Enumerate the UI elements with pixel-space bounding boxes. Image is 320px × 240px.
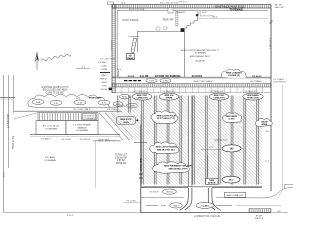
stepped roof line [185, 21, 198, 28]
svg-text:EDGE: EDGE [101, 89, 108, 91]
svg-text:GARAGE: GARAGE [77, 126, 87, 129]
planting bed cloud row [28, 94, 110, 107]
parking box label left [117, 117, 136, 125]
inner line notch [168, 8, 173, 13]
riser dark tick [196, 14, 199, 16]
svg-text:EX LAWN: EX LAWN [45, 156, 55, 159]
svg-text:50 FT WIDE: 50 FT WIDE [11, 136, 14, 150]
driveway left curb outer [180, 188, 189, 210]
svg-text:EX EDGE: EX EDGE [149, 192, 159, 194]
svg-text:EX ROOF LINE: EX ROOF LINE [129, 9, 145, 11]
parking cloud label 2 [222, 113, 241, 123]
svg-text:RAMP: RAMP [127, 57, 134, 60]
entrance drive edge b [105, 113, 129, 141]
svg-text:RESTRIPE: RESTRIPE [226, 116, 237, 118]
under-wall oval 1 [146, 78, 157, 82]
south wall tick [118, 71, 120, 78]
svg-text:35,000 SF: 35,000 SF [195, 60, 205, 62]
svg-text:CURB: CURB [101, 69, 108, 71]
svg-text:EX FENCE: EX FENCE [80, 139, 91, 141]
ramp label box [127, 54, 135, 60]
dimension tick [76, 68, 90, 70]
south wall second line [117, 78, 271, 80]
leader tick dark [100, 72, 110, 74]
svg-text:CURB (TYP): CURB (TYP) [137, 97, 148, 99]
entrance drive edge a [99, 113, 123, 141]
svg-text:N 8 W 98.0: N 8 W 98.0 [110, 40, 112, 51]
interior partition top line [137, 31, 185, 33]
svg-text:NEW LOADING: NEW LOADING [226, 71, 242, 74]
svg-text:TO REMAIN: TO REMAIN [76, 129, 89, 132]
svg-text:NEW CONC WALK: NEW CONC WALK [194, 80, 213, 83]
svg-text:R30.0: R30.0 [173, 205, 179, 207]
svg-text:TO REMAIN: TO REMAIN [45, 127, 58, 130]
svg-text:2.87 AC: 2.87 AC [117, 159, 126, 162]
under-wall dark dashes [124, 80, 141, 82]
svg-text:R25.0: R25.0 [167, 192, 173, 194]
svg-text:EXIST OFFICE: EXIST OFFICE [123, 20, 139, 22]
building east boundary line [270, 8, 272, 191]
interior partition vertical [184, 32, 186, 78]
parking area left edge [140, 114, 142, 125]
svg-text:STOPS (TYP): STOPS (TYP) [247, 97, 259, 99]
svg-text:EX SIGN: EX SIGN [155, 76, 165, 78]
svg-text:CURB (TYP): CURB (TYP) [214, 97, 225, 99]
svg-text:3 AB: 3 AB [36, 101, 41, 104]
svg-text:DOOR: DOOR [128, 76, 135, 78]
svg-text:EX PAVE 40.3: EX PAVE 40.3 [163, 90, 177, 93]
road corner upper jog [285, 184, 294, 188]
svg-text:PROPOSED: PROPOSED [89, 98, 102, 100]
svg-text:EX CONC BLOCK: EX CONC BLOCK [160, 2, 179, 4]
svg-text:LINK FENCE: LINK FENCE [274, 82, 287, 84]
svg-text:62.0': 62.0' [209, 147, 214, 149]
stall row oval r3 [209, 93, 229, 100]
parking hatch area main [141, 96, 262, 185]
building west wall [112, 5, 115, 93]
lower boundary line [95, 141, 97, 189]
svg-text:S 8 E 188.1': S 8 E 188.1' [269, 38, 271, 50]
drive lane line west [187, 96, 189, 187]
svg-text:AREA: AREA [262, 123, 268, 126]
svg-text:NEW FENCE: NEW FENCE [139, 158, 141, 172]
svg-text:EX CURB 40.1: EX CURB 40.1 [133, 91, 147, 93]
striped band label box [83, 113, 96, 119]
road label box right [225, 192, 246, 197]
entrance sidewalk line [14, 110, 122, 112]
svg-text:TOTAL LOT: TOTAL LOT [115, 154, 128, 157]
lawn edge line [96, 140, 117, 142]
wall corner dark mark [109, 88, 112, 91]
svg-text:APRON: APRON [208, 182, 216, 185]
drive lane line east [191, 96, 193, 187]
parking cloud label 1 [151, 111, 178, 124]
svg-text:GARDEN ST: GARDEN ST [6, 114, 9, 128]
svg-text:EX 1 STY BLDG: EX 1 STY BLDG [43, 126, 59, 128]
driveway right curb inner [208, 188, 215, 210]
road oval label left [163, 189, 177, 194]
svg-text:ZONE RA: ZONE RA [116, 162, 127, 165]
svg-text:6 TO: 6 TO [102, 103, 107, 105]
svg-text:STRIPE: STRIPE [166, 97, 174, 99]
svg-text:NO PARKING: NO PARKING [165, 75, 180, 78]
driveway left curb inner [185, 188, 192, 210]
svg-text:RIM 39.8: RIM 39.8 [255, 218, 264, 220]
svg-text:CL 40.0: CL 40.0 [201, 205, 210, 208]
svg-text:N 8 E: N 8 E [2, 172, 4, 178]
svg-text:3 CS: 3 CS [149, 81, 154, 83]
dim tick small [134, 142, 147, 144]
svg-text:NEW PAVEMENT SECTION: NEW PAVEMENT SECTION [164, 165, 192, 168]
stall row oval r1 [132, 93, 152, 100]
planting bed bottom edge [29, 106, 123, 108]
aisle line [112, 92, 271, 94]
svg-text:EX CHAIN: EX CHAIN [274, 78, 284, 81]
shop box left [36, 121, 66, 135]
building north wall hatched band [112, 5, 271, 8]
north arrow [36, 52, 38, 70]
svg-text:EX RTU (TYP): EX RTU (TYP) [200, 16, 214, 18]
sidewalk hatch band [112, 84, 271, 87]
svg-text:O.H. DR: O.H. DR [140, 76, 149, 78]
top stall ticks row [118, 87, 268, 92]
entrance drive edge c [111, 113, 133, 139]
svg-text:GATE: GATE [101, 81, 107, 84]
svg-text:EX WALK: EX WALK [41, 138, 51, 141]
svg-text:24.0': 24.0' [229, 179, 234, 182]
svg-text:EX CURB: EX CURB [107, 109, 117, 111]
svg-text:EX WALL: EX WALL [98, 61, 108, 64]
svg-text:DOORS (3): DOORS (3) [228, 75, 240, 77]
entrance drive diagonal hatch [105, 113, 141, 141]
partition corner dark square [181, 28, 185, 32]
band corner box [108, 2, 114, 5]
svg-text:TO REMAIN: TO REMAIN [83, 117, 95, 120]
left street crossing tick [0, 97, 15, 99]
svg-text:RIM 38.2 INV 34.6: RIM 38.2 INV 34.6 [157, 148, 176, 151]
svg-text:EXIST HEIGHT 26 FT: EXIST HEIGHT 26 FT [190, 56, 211, 58]
boundary jog symbol [270, 20, 273, 24]
parking cloud label 3 [255, 118, 272, 126]
svg-text:CONC: CONC [101, 66, 108, 68]
svg-text:2 PS: 2 PS [76, 98, 81, 100]
svg-text:NEW LIGHT POLE: NEW LIGHT POLE [157, 115, 176, 117]
interior partition left stub [137, 32, 139, 52]
shop box right [66, 121, 98, 135]
road centerline dashes [146, 205, 158, 207]
svg-text:TO REMAIN: TO REMAIN [194, 51, 206, 54]
building inner north line [117, 10, 268, 12]
svg-text:EX PAVE 40.4: EX PAVE 40.4 [245, 90, 259, 93]
svg-text:EX CURB: EX CURB [61, 139, 71, 141]
svg-text:20 FT HIGH (TYP): 20 FT HIGH (TYP) [157, 118, 175, 120]
parking cloud label 6 [153, 162, 190, 173]
road rw line right with corner curve [216, 188, 293, 198]
road top edge right segment [212, 187, 262, 189]
svg-text:S 82 W: S 82 W [67, 215, 74, 217]
svg-text:EX TRANS: EX TRANS [251, 80, 262, 83]
svg-text:TEAR OFF: TEAR OFF [162, 19, 174, 22]
left street west line [3, 75, 5, 213]
svg-text:NAIL FND: NAIL FND [275, 6, 285, 9]
wall label list left of building [98, 61, 108, 91]
stall row oval r2 [159, 93, 179, 100]
plant label oval 1 [32, 100, 44, 105]
plant label oval 3 [74, 100, 86, 105]
svg-text:SEE DETAIL (TYP): SEE DETAIL (TYP) [169, 167, 188, 170]
west parking fence line [140, 125, 142, 213]
driveway label box [206, 178, 218, 184]
stall striped band [38, 113, 98, 121]
building south wall [112, 76, 271, 78]
svg-text:BE CLOSED AND NEW: BE CLOSED AND NEW [43, 89, 68, 92]
parking hatch area left [117, 96, 141, 113]
svg-text:EX ELEC: EX ELEC [252, 76, 262, 78]
parking bottom edge [141, 186, 262, 188]
parking cloud label 4 [150, 142, 179, 154]
svg-text:FENCE: FENCE [100, 79, 108, 81]
stall row oval r4 [243, 93, 263, 100]
plant label oval 4 [98, 100, 110, 105]
under-wall oval 2 [160, 78, 171, 82]
svg-text:NEW CATCH BASIN: NEW CATCH BASIN [156, 146, 177, 149]
plant label oval 2 [50, 100, 62, 105]
svg-text:WALK: WALK [101, 74, 107, 77]
svg-text:EX CONC WALK: EX CONC WALK [74, 108, 91, 111]
parking oval label 7 [222, 176, 240, 183]
svg-text:4 IG: 4 IG [78, 102, 82, 104]
svg-text:LAMBERTON AVENUE: LAMBERTON AVENUE [194, 215, 221, 218]
plant label oval 6 [127, 103, 138, 108]
parking oval label 5 [222, 145, 241, 152]
crosswalk band right [249, 209, 271, 213]
svg-text:TO REMAIN: TO REMAIN [229, 9, 243, 12]
dim tick mid [214, 139, 227, 141]
road rw line left [141, 197, 184, 199]
entrance flare [14, 113, 39, 119]
svg-text:EX CURB: EX CURB [126, 200, 136, 202]
drive lane white gap [189, 96, 191, 187]
plant leader [122, 105, 126, 107]
svg-text:TO REMAIN: TO REMAIN [44, 159, 57, 162]
svg-text:TOP 41.2: TOP 41.2 [178, 2, 188, 4]
west wall inner line [116, 11, 118, 78]
svg-text:(TYP): (TYP) [229, 119, 235, 121]
svg-text:NEW GATE: NEW GATE [99, 139, 111, 142]
svg-text:SET PK: SET PK [275, 4, 283, 6]
boxes bottom double line [30, 134, 120, 136]
svg-text:EX DOCK: EX DOCK [192, 76, 203, 78]
svg-text:EXISTING CURB CUT TO: EXISTING CURB CUT TO [42, 87, 69, 89]
svg-text:EX PAVE 40.6: EX PAVE 40.6 [211, 90, 225, 93]
aisle oval 1 [119, 94, 129, 99]
dim leader vertical [207, 155, 209, 185]
bottom road line dark segment [141, 212, 271, 214]
road top edge left segment [141, 187, 189, 189]
wall cloud label [221, 69, 246, 78]
left street middle line [8, 75, 10, 168]
road oval label center 1 [170, 203, 183, 208]
roof marks [156, 27, 160, 30]
svg-text:STEP: STEP [102, 86, 108, 88]
ramp dim tick [128, 36, 139, 38]
dimension line right [197, 18, 268, 20]
small line left of road [123, 202, 141, 204]
left street east line [13, 75, 15, 113]
svg-text:1 STORY FRAME: 1 STORY FRAME [73, 124, 91, 127]
svg-text:NEW CURB CUT: NEW CURB CUT [226, 195, 244, 197]
driveway right curb outer [212, 188, 221, 210]
ramp parallelogram [131, 38, 137, 53]
road oval label center 2 [196, 202, 214, 208]
svg-text:5 JC: 5 JC [54, 103, 59, 105]
riser vertical [197, 14, 199, 21]
handwritten scale note [41, 54, 71, 61]
svg-text:CURB TO BE SET: CURB TO BE SET [45, 92, 65, 94]
right curb light vertical [279, 85, 283, 196]
plant label oval 5 [113, 102, 123, 106]
svg-text:125,000 SF: 125,000 SF [115, 157, 127, 159]
svg-text:4 HV: 4 HV [163, 81, 168, 83]
svg-text:EXIST 1 STORY MASONRY BLDG NO: EXIST 1 STORY MASONRY BLDG NO 17 [181, 49, 220, 52]
bottom road line [4, 212, 289, 214]
expansion joint strip [176, 11, 178, 26]
fence tick marks [139, 173, 143, 175]
